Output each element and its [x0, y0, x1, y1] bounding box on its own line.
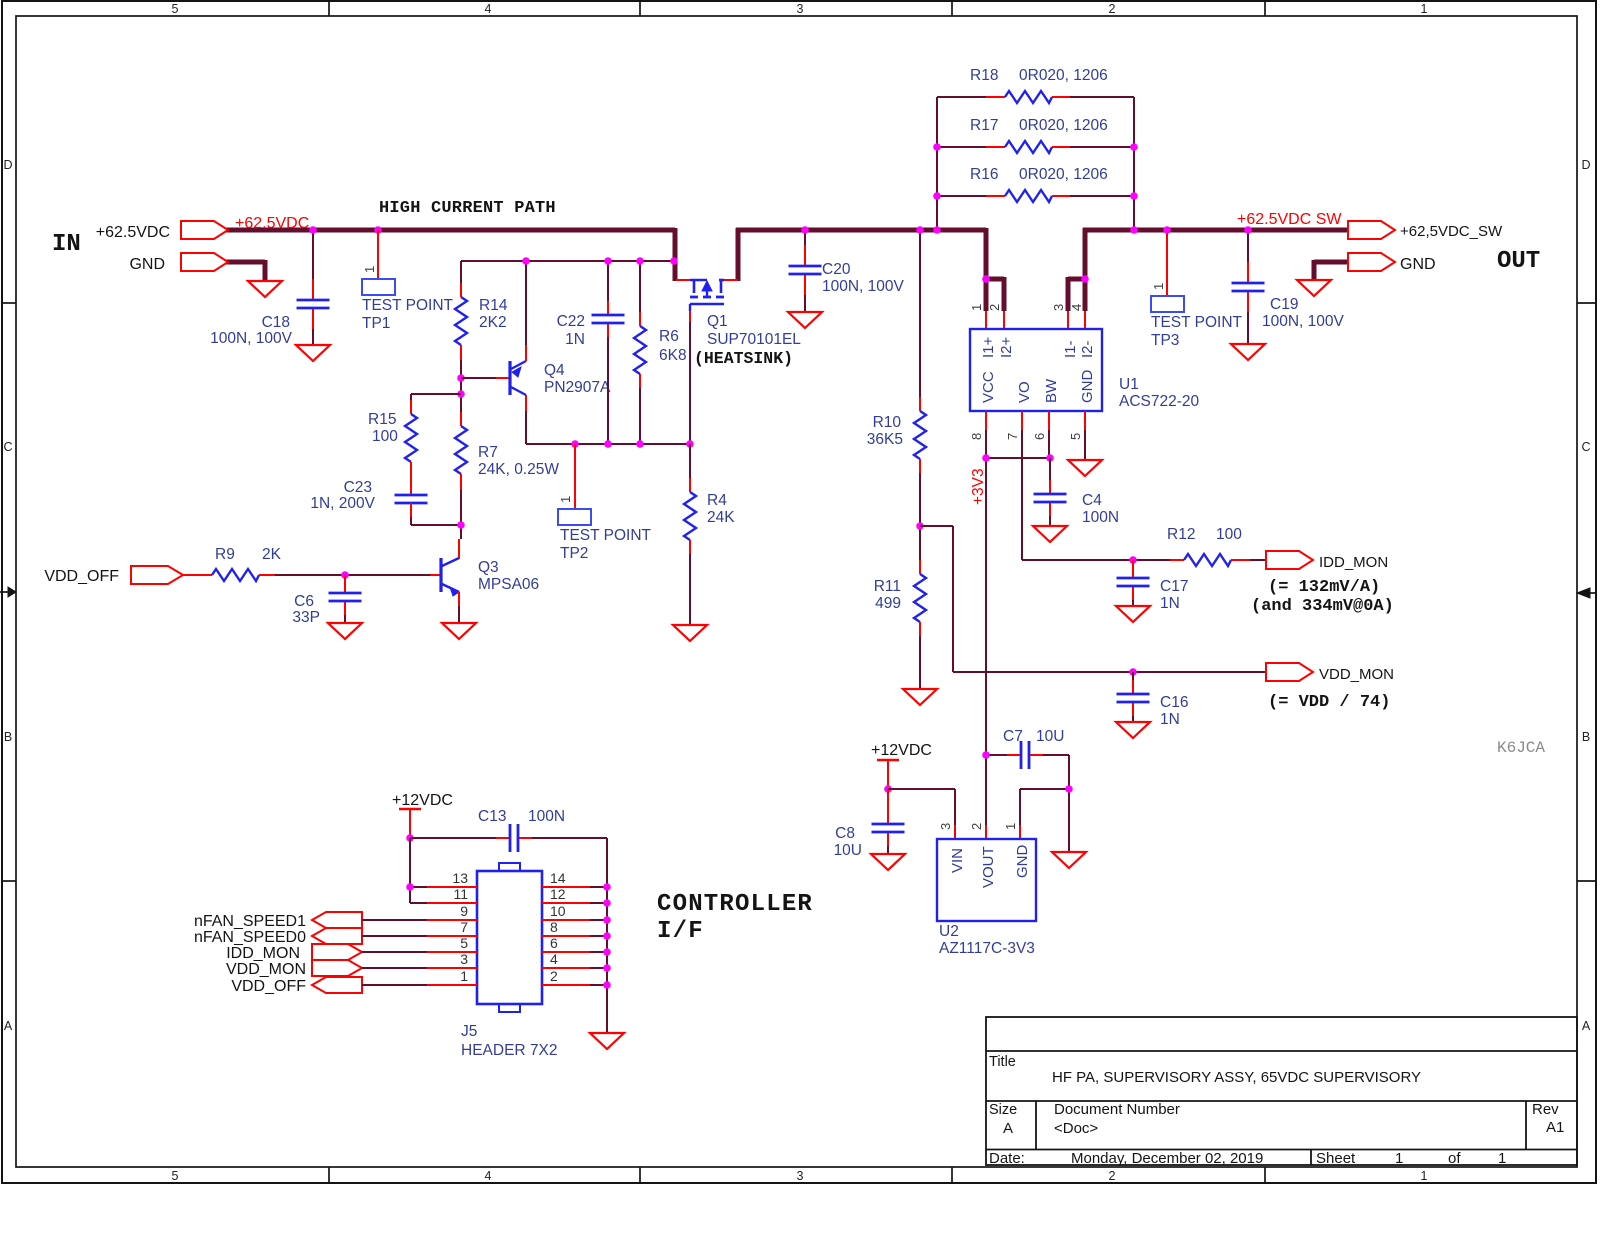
port VDD_OFF (J5)	[312, 977, 362, 993]
capacitor C16	[1117, 693, 1150, 696]
svg-text:I2-: I2-	[1079, 340, 1096, 358]
svg-text:Q4: Q4	[544, 362, 565, 379]
svg-text:+62,5VDC_SW: +62,5VDC_SW	[1400, 223, 1503, 240]
svg-text:(and 334mV@0A): (and 334mV@0A)	[1251, 597, 1394, 616]
svg-text:<Doc>: <Doc>	[1054, 1120, 1098, 1137]
svg-text:of: of	[1448, 1150, 1461, 1167]
port VDD_MON	[1266, 663, 1313, 681]
svg-text:IDD_MON: IDD_MON	[1319, 554, 1388, 571]
wire C4 stub	[1049, 458, 1051, 480]
resistor R14	[455, 297, 467, 345]
wire shunt rail left	[936, 97, 938, 230]
capacitor C7	[1020, 741, 1023, 769]
capacitor C13	[509, 824, 512, 852]
svg-text:1: 1	[460, 968, 468, 984]
junction C22 bottom	[604, 440, 612, 448]
svg-text:2K2: 2K2	[479, 314, 507, 331]
svg-text:36K5: 36K5	[867, 431, 903, 448]
svg-text:TP3: TP3	[1151, 332, 1179, 349]
wire Q3 collector	[458, 545, 460, 558]
svg-text:I1+: I1+	[980, 336, 997, 358]
junction rail R17 right	[1130, 143, 1138, 151]
resistor R9	[212, 569, 259, 581]
svg-text:C19: C19	[1270, 296, 1298, 313]
svg-text:1N, 200V: 1N, 200V	[310, 495, 375, 512]
wire U1 pin1	[985, 311, 987, 329]
wire C18 stub	[312, 230, 314, 279]
svg-text:Date:: Date:	[989, 1150, 1025, 1167]
svg-text:1: 1	[1151, 283, 1166, 290]
resistor R16	[1005, 190, 1052, 202]
svg-text:6K8: 6K8	[659, 347, 687, 364]
ground C6	[328, 623, 362, 639]
wire R9 right	[259, 574, 275, 576]
junction U1 I-plus	[982, 275, 990, 283]
svg-text:R7: R7	[478, 444, 498, 461]
resistor R12	[1184, 554, 1231, 566]
svg-text:4: 4	[485, 2, 492, 16]
wire U1 pin2	[1003, 311, 1005, 329]
svg-text:2: 2	[1109, 1169, 1116, 1183]
capacitor C20	[789, 265, 822, 268]
svg-text:U1: U1	[1119, 376, 1139, 393]
svg-text:C17: C17	[1160, 578, 1188, 595]
svg-text:HIGH CURRENT PATH: HIGH CURRENT PATH	[379, 199, 556, 218]
svg-text:5: 5	[172, 2, 179, 16]
wire C23 bottom	[410, 503, 412, 517]
svg-text:TEST POINT: TEST POINT	[560, 527, 652, 544]
wire Q1 drain to U1 (thick)	[736, 228, 741, 281]
svg-text:R18: R18	[970, 67, 998, 84]
svg-text:1: 1	[558, 496, 573, 503]
junction rail bottom left	[933, 226, 941, 234]
ground C20	[788, 312, 822, 328]
svg-text:nFAN_SPEED1: nFAN_SPEED1	[194, 913, 306, 930]
port OUT +62,5VDC_SW	[1348, 221, 1395, 239]
ground C4	[1033, 526, 1067, 542]
svg-text:10U: 10U	[834, 842, 862, 859]
resistor R10	[914, 411, 926, 459]
svg-text:GND: GND	[1400, 256, 1436, 273]
svg-text:3: 3	[797, 1169, 804, 1183]
svg-text:Sheet: Sheet	[1316, 1150, 1356, 1167]
wire R9 left	[183, 574, 212, 576]
resistor R7	[455, 426, 467, 474]
svg-text:C23: C23	[344, 479, 372, 496]
svg-text:6: 6	[1032, 433, 1047, 440]
svg-text:TP1: TP1	[362, 315, 390, 332]
wire R11 bottom	[919, 622, 921, 636]
wire R12 left	[1170, 559, 1184, 561]
wire Q4 emitter	[525, 261, 527, 345]
svg-text:PN2907A: PN2907A	[544, 379, 611, 396]
resistor R15	[405, 414, 417, 462]
svg-text:1: 1	[969, 304, 984, 311]
svg-text:4: 4	[485, 1169, 492, 1183]
svg-text:6: 6	[550, 935, 558, 951]
svg-text:D: D	[3, 158, 12, 172]
svg-text:R15: R15	[368, 411, 396, 428]
capacitor C19	[1232, 282, 1265, 285]
svg-text:0R020, 1206: 0R020, 1206	[1019, 117, 1108, 134]
svg-text:VDD_OFF: VDD_OFF	[44, 568, 119, 585]
wire R10-R11	[919, 459, 921, 473]
wire U1 I1-/I2- to output (thick)	[1083, 228, 1088, 311]
svg-text:12: 12	[550, 886, 566, 902]
svg-text:1: 1	[362, 266, 377, 273]
capacitor C18	[297, 299, 330, 302]
wire R4 top	[689, 444, 691, 478]
svg-text:1: 1	[1003, 823, 1018, 830]
junction TP3	[1163, 226, 1171, 234]
svg-text:Monday, December 02, 2019: Monday, December 02, 2019	[1071, 1150, 1263, 1167]
svg-text:IDD_MON: IDD_MON	[226, 945, 300, 962]
junction rail R16 right	[1130, 192, 1138, 200]
ground J5	[590, 1033, 624, 1049]
junction R10 thick	[916, 226, 924, 234]
test point TP3	[1166, 230, 1168, 296]
junction R4 tap	[686, 440, 694, 448]
svg-text:R14: R14	[479, 297, 508, 314]
svg-text:3: 3	[1051, 304, 1066, 311]
svg-text:BW: BW	[1043, 378, 1060, 403]
svg-text:A1: A1	[1546, 1119, 1564, 1136]
svg-text:R9: R9	[215, 546, 235, 563]
svg-text:CONTROLLER: CONTROLLER	[657, 891, 813, 918]
junction C20	[801, 226, 809, 234]
svg-text:R16: R16	[970, 166, 998, 183]
svg-text:C: C	[3, 440, 12, 454]
svg-text:C: C	[1581, 440, 1590, 454]
junction VCC-3V3	[982, 454, 990, 462]
junction J5 rail y968	[603, 964, 611, 972]
junction J5 rail y887	[603, 883, 611, 891]
svg-text:14: 14	[550, 870, 566, 886]
svg-text:7: 7	[1005, 433, 1020, 440]
wire R15 branch	[411, 393, 461, 395]
svg-text:2: 2	[969, 823, 984, 830]
svg-text:Size: Size	[989, 1102, 1017, 1118]
svg-text:24K: 24K	[707, 509, 735, 526]
ground R4	[673, 625, 707, 641]
svg-text:+12VDC: +12VDC	[392, 792, 453, 809]
junction C18	[309, 226, 317, 234]
junction pin13 tap	[406, 883, 414, 891]
port nFAN_SPEED1	[312, 912, 362, 928]
regulator U2 AZ1117C-3V3	[937, 839, 1036, 921]
svg-text:7: 7	[460, 919, 468, 935]
svg-text:HEADER 7X2: HEADER 7X2	[461, 1042, 557, 1059]
svg-text:IN: IN	[52, 231, 81, 258]
svg-text:+62.5VDC: +62.5VDC	[96, 224, 170, 241]
svg-text:nFAN_SPEED0: nFAN_SPEED0	[194, 929, 306, 946]
svg-text:C7: C7	[1003, 728, 1023, 745]
svg-text:1N: 1N	[1160, 595, 1180, 612]
wire C16 stub	[1132, 672, 1134, 680]
svg-text:33P: 33P	[292, 609, 320, 626]
svg-text:VDD_MON: VDD_MON	[226, 961, 306, 978]
svg-text:A: A	[1582, 1019, 1591, 1033]
port VDD_MON (J5)	[312, 960, 362, 976]
svg-text:100N, 100V: 100N, 100V	[1262, 313, 1345, 330]
svg-text:1: 1	[1395, 1150, 1403, 1167]
svg-text:R6: R6	[659, 328, 679, 345]
svg-text:VCC: VCC	[980, 371, 997, 403]
port nFAN_SPEED0	[312, 928, 362, 944]
svg-text:24K, 0.25W: 24K, 0.25W	[478, 461, 559, 478]
resistor R11	[914, 574, 926, 622]
transistor Q4 PN2907A	[508, 361, 511, 395]
svg-text:MPSA06: MPSA06	[478, 576, 539, 593]
svg-text:5: 5	[172, 1169, 179, 1183]
svg-text:VO: VO	[1016, 381, 1033, 403]
wire R15 to C23	[410, 462, 412, 481]
svg-text:R17: R17	[970, 117, 998, 134]
svg-text:A: A	[4, 1019, 13, 1033]
svg-text:5: 5	[460, 935, 468, 951]
svg-text:C22: C22	[557, 313, 585, 330]
transistor Q3 MPSA06	[439, 558, 442, 592]
svg-text:(= VDD / 74): (= VDD / 74)	[1268, 693, 1390, 712]
svg-text:OUT: OUT	[1497, 248, 1540, 275]
wire Q4 base	[461, 377, 496, 379]
wire R16 row	[937, 195, 986, 197]
wire +3V3 rail	[986, 457, 1050, 459]
capacitor C8	[872, 823, 905, 826]
svg-text:AZ1117C-3V3: AZ1117C-3V3	[939, 940, 1035, 957]
svg-text:0R020, 1206: 0R020, 1206	[1019, 67, 1108, 84]
svg-text:0R020, 1206: 0R020, 1206	[1019, 166, 1108, 183]
svg-text:C13: C13	[478, 808, 506, 825]
svg-text:+3V3: +3V3	[970, 468, 987, 505]
wire C22 column	[607, 261, 609, 301]
junction R7-C23-Q3	[457, 521, 465, 529]
svg-text:1N: 1N	[1160, 711, 1180, 728]
svg-text:R12: R12	[1167, 526, 1195, 543]
wire U1 pin5 GND	[1084, 411, 1086, 430]
svg-text:499: 499	[875, 595, 901, 612]
junction TP2 tap	[571, 440, 579, 448]
wire VIN net	[888, 788, 955, 790]
svg-text:TEST POINT: TEST POINT	[1151, 314, 1243, 331]
junction R15 tap	[457, 390, 465, 398]
svg-text:C6: C6	[294, 593, 314, 610]
svg-text:(HEATSINK): (HEATSINK)	[694, 349, 793, 368]
svg-text:13: 13	[452, 870, 468, 886]
junction C16 tap	[1129, 668, 1137, 676]
svg-text:Document Number: Document Number	[1054, 1101, 1180, 1118]
junction C8 tap	[884, 785, 892, 793]
wire C20 stub	[804, 230, 806, 245]
svg-text:100N, 100V: 100N, 100V	[210, 330, 293, 347]
svg-text:GND: GND	[129, 256, 165, 273]
test point TP1	[377, 230, 379, 279]
capacitor C4	[1034, 493, 1067, 496]
wire R14 top	[460, 261, 462, 283]
svg-text:C8: C8	[835, 825, 855, 842]
transistor Q1 SUP70101EL (MOSFET)	[676, 279, 690, 281]
junction J5 rail y985	[603, 981, 611, 989]
wire U1 pin3	[1067, 311, 1069, 329]
svg-text:R11: R11	[874, 578, 901, 595]
wire C6 stub	[344, 575, 346, 593]
ground IN	[248, 281, 282, 297]
capacitor C17	[1117, 577, 1150, 580]
svg-text:VDD_OFF: VDD_OFF	[231, 978, 306, 995]
svg-text:8: 8	[969, 433, 984, 440]
junction C22 top	[604, 257, 612, 265]
svg-text:Title: Title	[989, 1054, 1016, 1070]
svg-text:8: 8	[550, 919, 558, 935]
svg-text:VIN: VIN	[949, 848, 966, 873]
wire OUT GND (thick)	[1314, 260, 1348, 265]
ground C19	[1231, 344, 1265, 360]
svg-text:10: 10	[550, 903, 566, 919]
svg-text:U2: U2	[939, 923, 959, 940]
wire U1 I2+ branch (thick)	[986, 277, 1004, 282]
junction U1 I-minus	[1081, 275, 1089, 283]
svg-text:VDD_MON: VDD_MON	[1319, 666, 1394, 683]
svg-text:TP2: TP2	[560, 545, 588, 562]
svg-text:Q1: Q1	[707, 313, 728, 330]
wire U2 GND net	[1020, 788, 1069, 790]
svg-text:VOUT: VOUT	[980, 846, 997, 888]
svg-text:C20: C20	[822, 261, 851, 278]
wire U1 pin4	[1084, 311, 1086, 329]
svg-text:100: 100	[1216, 526, 1242, 543]
wire high current path +62.5VDC (thick)	[226, 228, 675, 233]
junction rail bottom right	[1130, 226, 1138, 234]
svg-text:100N: 100N	[528, 808, 565, 825]
wire R14 bottom to R7	[460, 345, 462, 360]
svg-text:+62.5VDC: +62.5VDC	[235, 215, 309, 232]
wire shunt rail right	[1133, 97, 1135, 230]
svg-text:Rev: Rev	[1532, 1101, 1559, 1118]
wire Q4 collector	[525, 395, 527, 411]
ground C8	[871, 854, 905, 870]
svg-text:TEST POINT: TEST POINT	[362, 297, 454, 314]
wire gate pull-up rail	[461, 260, 674, 262]
svg-text:3: 3	[938, 823, 953, 830]
svg-text:+12VDC: +12VDC	[871, 742, 932, 759]
svg-text:2: 2	[987, 304, 1002, 311]
wire J5 right rail	[606, 887, 608, 1033]
wire R12 right	[1231, 559, 1250, 561]
junction J5 rail y952	[603, 948, 611, 956]
resistor R17	[1005, 141, 1052, 153]
svg-text:A: A	[1003, 1120, 1013, 1137]
wire R4 bottom	[689, 540, 691, 554]
capacitor C22	[592, 314, 625, 317]
svg-text:Q3: Q3	[478, 559, 499, 576]
capacitor C6	[329, 592, 362, 595]
wire IN GND (thick)	[226, 260, 265, 265]
svg-text:3: 3	[460, 951, 468, 967]
svg-text:K6JCA: K6JCA	[1497, 739, 1545, 757]
junction TP1	[374, 226, 382, 234]
junction J5 rail y903	[603, 899, 611, 907]
wire U1 pin8 VCC	[985, 411, 987, 430]
svg-text:J5: J5	[461, 1023, 477, 1040]
junction R6 bottom	[636, 440, 644, 448]
wire U2 VOUT	[985, 825, 987, 839]
junction C17 tap	[1129, 556, 1137, 564]
wire C19 stub	[1247, 230, 1249, 262]
svg-text:C4: C4	[1082, 492, 1102, 509]
resistor R4	[684, 492, 696, 540]
wire R17 row	[937, 146, 986, 148]
wire C8 stub	[887, 789, 889, 810]
svg-text:2: 2	[550, 968, 558, 984]
ground C18	[296, 345, 330, 361]
junction Q4 emitter rail	[522, 257, 530, 265]
capacitor C23	[395, 494, 428, 497]
svg-text:4: 4	[550, 951, 558, 967]
svg-text:I1-: I1-	[1062, 340, 1079, 358]
junction C6 tap	[341, 571, 349, 579]
port OUT GND	[1348, 253, 1395, 271]
junction J5 rail y920	[603, 916, 611, 924]
resistor R18	[1005, 91, 1052, 103]
junction U2 gnd	[1065, 785, 1073, 793]
svg-text:GND: GND	[1014, 845, 1031, 879]
port IDD_MON	[1266, 551, 1313, 569]
svg-text:3: 3	[797, 2, 804, 16]
wire R7 to Q3	[460, 474, 462, 490]
wire C7 branch	[986, 754, 1007, 756]
svg-text:D: D	[1581, 158, 1590, 172]
wire C13 row	[410, 837, 496, 839]
wire R18 row	[937, 96, 986, 98]
port VDD_OFF	[131, 566, 183, 584]
ground C16	[1116, 722, 1150, 738]
junction rail R17 left	[933, 143, 941, 151]
wire U1 pin6 BW	[1048, 411, 1050, 430]
svg-text:10U: 10U	[1036, 728, 1064, 745]
wire R6 column	[639, 261, 641, 312]
svg-text:2K: 2K	[262, 546, 282, 563]
junction C7 left	[982, 751, 990, 759]
svg-text:1N: 1N	[565, 331, 585, 348]
svg-text:SUP70101EL: SUP70101EL	[707, 331, 801, 348]
svg-text:4: 4	[1069, 304, 1084, 311]
svg-text:1: 1	[1421, 2, 1428, 16]
svg-text:ACS722-20: ACS722-20	[1119, 393, 1200, 410]
junction BW-C4	[1046, 454, 1054, 462]
svg-text:11: 11	[453, 886, 468, 902]
connector J5 body	[477, 871, 542, 1004]
port IN GND	[181, 253, 228, 271]
ground U2	[1052, 852, 1086, 868]
junction R6 top	[636, 257, 644, 265]
svg-text:I/F: I/F	[657, 918, 704, 945]
resistor R6	[634, 326, 646, 374]
wire R10 top	[919, 230, 921, 397]
junction J5 rail y936	[603, 932, 611, 940]
svg-text:100N, 100V: 100N, 100V	[822, 278, 905, 295]
ground C17	[1116, 606, 1150, 622]
wire J5 pin leads	[427, 886, 477, 888]
wire U1 pin7 VO	[1021, 411, 1023, 430]
wire gate net	[575, 443, 690, 445]
test point TP2	[574, 444, 576, 509]
svg-text:I2+: I2+	[998, 336, 1015, 358]
svg-text:1: 1	[1498, 1150, 1506, 1167]
port IDD_MON (J5)	[312, 944, 362, 960]
svg-text:1: 1	[1421, 1169, 1428, 1183]
svg-text:C18: C18	[262, 314, 290, 331]
svg-text:R4: R4	[707, 492, 727, 509]
